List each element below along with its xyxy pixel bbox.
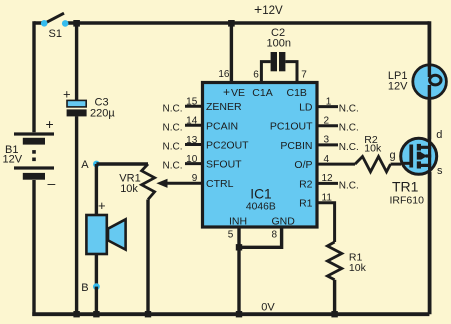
svg-text:PCAIN: PCAIN [206, 120, 238, 132]
svg-text:10k: 10k [364, 143, 382, 155]
svg-text:12V: 12V [3, 153, 23, 165]
svg-text:C1B: C1B [287, 87, 307, 99]
svg-text:GND: GND [272, 216, 296, 228]
svg-text:PCBIN: PCBIN [280, 140, 312, 152]
svg-text:12V: 12V [388, 80, 408, 92]
node: sounder branch on 0V rail [93, 311, 99, 317]
source lead [419, 165, 430, 172]
svg-text:A: A [81, 159, 89, 171]
svg-text:N.C.: N.C. [163, 161, 183, 172]
node: VR1 branch on 0V rail [145, 311, 151, 317]
wire: C3 branch vertical [75, 23, 78, 314]
svg-text:2: 2 [324, 115, 330, 126]
svg-text:14: 14 [186, 116, 198, 127]
svg-text:4046B: 4046B [246, 201, 276, 212]
wire: IC pin 11 to R1 [317, 203, 335, 242]
body lead with arrow [426, 154, 432, 157]
svg-text:O/P: O/P [294, 159, 312, 171]
node: R1 branch on 0V rail [331, 311, 337, 317]
svg-text:1: 1 [326, 96, 332, 107]
node: junction of pin16 branch on +12V rail [228, 20, 235, 27]
wire: bottom 0V rail [32, 312, 429, 316]
svg-text:C1A: C1A [252, 87, 272, 99]
svg-text:5: 5 [228, 230, 234, 241]
wire: VR1 bottom to 0V rail [146, 200, 149, 315]
IC1 left pins 15,14,13,10 N.C. stubs [185, 106, 203, 163]
svg-text:12: 12 [322, 173, 334, 184]
sounder LS (piezo) [86, 198, 125, 254]
svg-text:d: d [436, 129, 442, 141]
svg-text:N.C.: N.C. [163, 103, 183, 114]
N.C. labels left [163, 103, 183, 171]
svg-text:100n: 100n [267, 37, 291, 49]
svg-text:10k: 10k [120, 183, 138, 195]
node: junction pins 5/8 [236, 244, 242, 250]
svg-text:+: + [46, 116, 54, 132]
wire: left branch with battery [32, 21, 35, 316]
svg-text:10k: 10k [349, 262, 367, 274]
node: pin5 branch on 0V rail [236, 311, 242, 317]
wire: top +12V rail [34, 21, 429, 24]
svg-text:R2: R2 [299, 178, 313, 190]
svg-text:N.C.: N.C. [339, 104, 359, 115]
channel segments [417, 144, 421, 151]
wire: VR1 wiper to IC pin 9 [156, 179, 203, 188]
svg-text:g: g [390, 149, 396, 161]
svg-text:IC1: IC1 [250, 187, 271, 202]
svg-text:6: 6 [253, 70, 259, 81]
svg-text:N.C.: N.C. [339, 180, 359, 191]
svg-text:9: 9 [192, 173, 198, 184]
IC1 right pin numbers [322, 96, 334, 203]
wire: right branch (lamp/MOSFET) [427, 21, 431, 314]
svg-text:PC2OUT: PC2OUT [206, 140, 249, 152]
svg-text:B: B [81, 282, 88, 294]
wire: sounder to node B [95, 254, 98, 286]
svg-text:10: 10 [186, 154, 198, 165]
svg-text:15: 15 [186, 97, 198, 108]
node: C3 branch on 0V rail [73, 311, 79, 317]
svg-text:s: s [437, 165, 443, 177]
svg-text:N.C.: N.C. [339, 142, 359, 153]
IC1 left pin numbers [186, 97, 198, 185]
svg-text:7: 7 [301, 70, 307, 81]
svg-text:N.C.: N.C. [163, 142, 183, 153]
svg-text:+: + [98, 198, 106, 213]
wire: R1 to 0V rail [333, 280, 336, 314]
svg-text:+: + [223, 85, 230, 99]
resistor R1 10k [327, 242, 366, 280]
wire: R2 to TR1 gate [391, 163, 402, 166]
svg-text:PC1OUT: PC1OUT [270, 121, 313, 133]
svg-text:R1: R1 [299, 198, 313, 210]
svg-text:+: + [63, 87, 71, 102]
node B [81, 282, 100, 294]
MOSFET TR1 IRF610 [390, 129, 444, 207]
wire: node A to VR1 top [96, 162, 148, 165]
capacitor C2 100n [261, 27, 297, 82]
svg-text:VE: VE [231, 87, 245, 99]
resistor R2 10k [355, 134, 391, 172]
wire: node A down to sounder [95, 164, 98, 216]
svg-text:16: 16 [218, 69, 230, 80]
capacitor C3 220u electrolytic [63, 87, 115, 120]
lamp LP1 12V [388, 64, 446, 100]
svg-text:CTRL: CTRL [206, 178, 234, 190]
svg-text:SFOUT: SFOUT [206, 159, 242, 171]
node A [81, 159, 100, 171]
IC1 right pins 1,2,3,12 N.C. stubs [317, 107, 338, 184]
gate lead [401, 162, 411, 165]
vertical between d and s inside [428, 147, 431, 165]
drain lead [419, 139, 430, 147]
potentiometer VR1 10k [119, 164, 154, 200]
svg-text:INH: INH [229, 216, 247, 228]
gate bar [409, 145, 413, 168]
svg-text:IRF610: IRF610 [390, 194, 425, 206]
svg-text:3: 3 [324, 135, 330, 146]
op-amp IC1 4046B body [203, 83, 318, 228]
wire: IC pin 8 to pin 5 wire [239, 227, 282, 247]
wire: IC pin 4 O/P to R2 [317, 163, 355, 166]
switch S1 [41, 13, 69, 40]
battery B1 12V [3, 116, 56, 191]
wire: node B to 0V rail [95, 287, 98, 314]
svg-text:–: – [48, 175, 56, 191]
wire: +12V rail to IC pin 16 [230, 23, 233, 82]
svg-text:13: 13 [186, 135, 198, 146]
node: junction of C3 branch on +12V rail [73, 20, 80, 27]
svg-text:ZENER: ZENER [206, 101, 242, 113]
svg-text:N.C.: N.C. [163, 122, 183, 133]
svg-text:N.C.: N.C. [339, 123, 359, 134]
wire: IC pin 5 to 0V rail [237, 227, 240, 314]
N.C. labels right [339, 104, 359, 192]
svg-text:TR1: TR1 [392, 179, 419, 195]
svg-text:LD: LD [299, 102, 313, 114]
svg-text:220µ: 220µ [90, 108, 115, 120]
svg-text:0V: 0V [261, 302, 275, 314]
svg-text:S1: S1 [49, 28, 62, 40]
svg-text:8: 8 [272, 230, 278, 241]
